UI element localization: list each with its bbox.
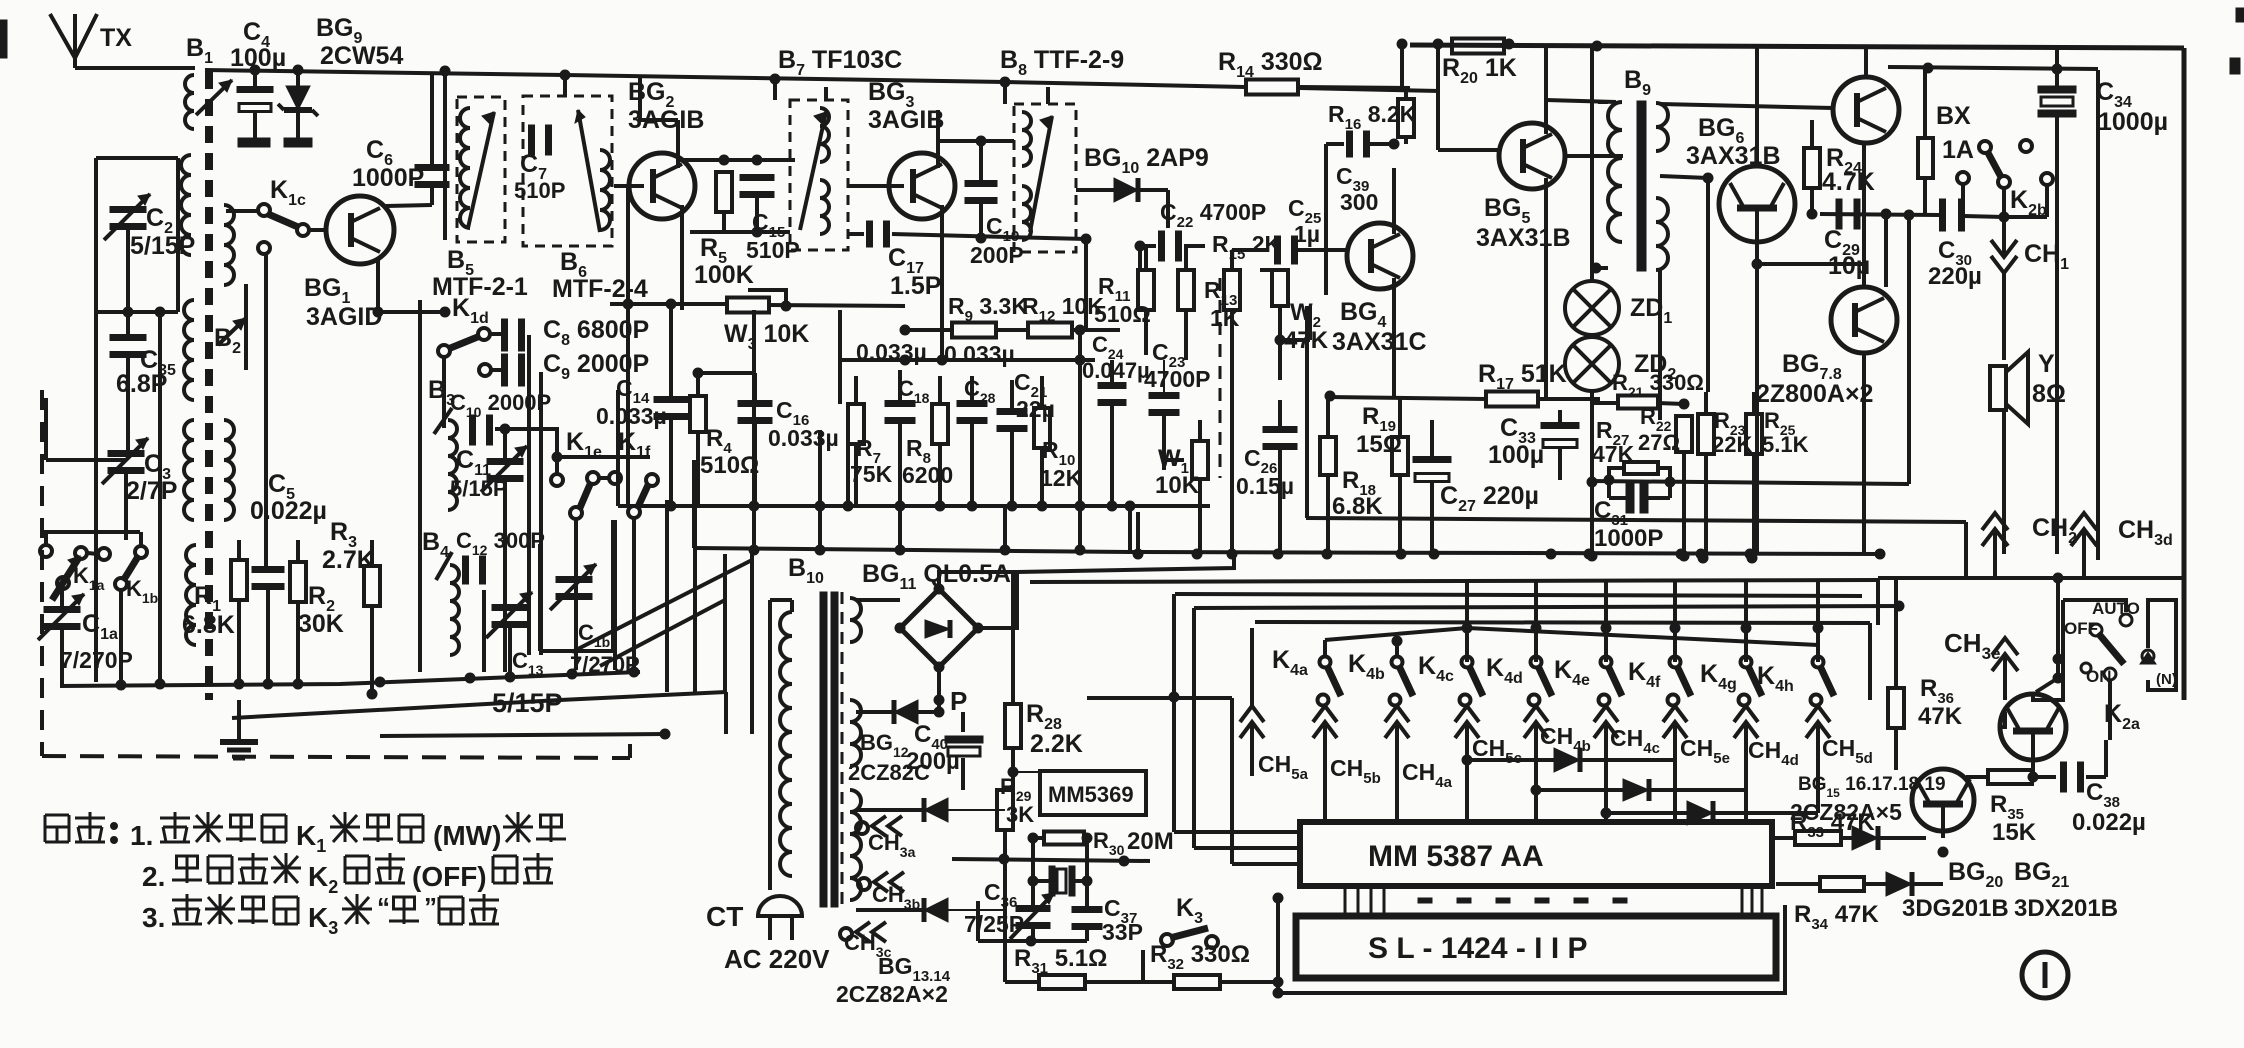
svg-text:510Ω: 510Ω <box>700 452 759 479</box>
svg-text:0.033µ: 0.033µ <box>768 425 839 451</box>
svg-text:0.022µ: 0.022µ <box>250 497 327 525</box>
svg-text:2.7K: 2.7K <box>322 546 375 574</box>
svg-text:5.1K: 5.1K <box>1762 432 1809 457</box>
svg-text:1000µ: 1000µ <box>2098 108 2168 136</box>
svg-text:3AX31B: 3AX31B <box>1476 224 1571 252</box>
svg-text:(N): (N) <box>2156 671 2177 688</box>
svg-text:2.2K: 2.2K <box>1030 730 1083 758</box>
svg-text:0.033µ: 0.033µ <box>944 341 1015 367</box>
svg-text:15K: 15K <box>1992 819 2037 846</box>
svg-text:47K: 47K <box>1918 703 1963 730</box>
svg-text:“: “ <box>377 892 390 922</box>
svg-text:200P: 200P <box>970 242 1024 268</box>
svg-text:1.5P: 1.5P <box>890 272 941 300</box>
svg-text:0.033µ: 0.033µ <box>596 403 667 429</box>
svg-text:BX: BX <box>1936 102 1971 130</box>
svg-text:TX: TX <box>100 24 132 52</box>
svg-text:1µ: 1µ <box>1294 221 1320 247</box>
svg-text:30K: 30K <box>298 610 344 638</box>
svg-text:3AX31B: 3AX31B <box>1686 142 1781 170</box>
svg-text:100µ: 100µ <box>1488 441 1544 469</box>
svg-text:10µ: 10µ <box>1828 252 1870 280</box>
svg-text:7/25P: 7/25P <box>964 911 1024 937</box>
svg-text:5/15P: 5/15P <box>130 232 195 260</box>
svg-text:AC 220V: AC 220V <box>724 944 830 974</box>
svg-text:P: P <box>950 686 967 716</box>
svg-text:33P: 33P <box>1102 919 1143 945</box>
svg-text:5/15P: 5/15P <box>450 476 508 501</box>
svg-text:300: 300 <box>1340 189 1378 215</box>
svg-text:200µ: 200µ <box>906 748 960 775</box>
svg-text:”: ” <box>424 892 437 922</box>
svg-text:1000P: 1000P <box>352 164 424 192</box>
svg-text:100µ: 100µ <box>230 44 286 72</box>
svg-text:2CW54: 2CW54 <box>320 42 403 70</box>
svg-text:15Ω: 15Ω <box>1356 431 1402 458</box>
svg-text:3AGID: 3AGID <box>306 303 382 331</box>
svg-text:0.15µ: 0.15µ <box>1236 473 1294 499</box>
svg-text:2Z800A×2: 2Z800A×2 <box>1756 380 1873 408</box>
svg-text:220µ: 220µ <box>1928 263 1982 290</box>
svg-text:27Ω: 27Ω <box>1638 430 1680 455</box>
svg-text:510P: 510P <box>514 178 565 203</box>
svg-text:10K: 10K <box>1155 472 1200 499</box>
svg-text:0.047µ: 0.047µ <box>1082 358 1150 383</box>
svg-text:510Ω: 510Ω <box>1094 301 1151 327</box>
svg-text:20M: 20M <box>1127 828 1174 855</box>
svg-text:12K: 12K <box>1040 465 1083 491</box>
svg-text:8Ω: 8Ω <box>2032 380 2066 408</box>
svg-text:3K: 3K <box>1006 802 1034 827</box>
svg-text:3AGIB: 3AGIB <box>868 106 944 134</box>
svg-text:100K: 100K <box>694 261 754 289</box>
svg-text:MM5369: MM5369 <box>1048 782 1134 807</box>
svg-text:6.8K: 6.8K <box>1332 493 1383 520</box>
svg-text:Y: Y <box>2038 350 2055 378</box>
svg-text:0.022µ: 0.022µ <box>2072 809 2146 836</box>
svg-text:CT: CT <box>706 901 743 932</box>
svg-text:6200: 6200 <box>902 462 953 488</box>
svg-text:2.: 2. <box>142 861 165 892</box>
svg-text:MTF-2-4: MTF-2-4 <box>552 275 648 303</box>
svg-text:3.: 3. <box>142 902 165 933</box>
svg-text:1000P: 1000P <box>1594 525 1663 552</box>
svg-text:S L - 1424 - I I P: S L - 1424 - I I P <box>1368 932 1588 965</box>
svg-text:4.7K: 4.7K <box>1822 168 1875 196</box>
svg-text:4700P: 4700P <box>1144 366 1211 392</box>
svg-text:3DX201B: 3DX201B <box>2014 895 2118 922</box>
svg-text:6.8K: 6.8K <box>182 611 235 639</box>
svg-text:MTF-2-1: MTF-2-1 <box>432 273 528 301</box>
svg-text:(OFF): (OFF) <box>412 861 487 892</box>
svg-text:3AX31C: 3AX31C <box>1332 328 1427 356</box>
svg-text:1A: 1A <box>1942 136 1974 164</box>
svg-text:(MW): (MW) <box>433 820 501 851</box>
svg-text:5/15P: 5/15P <box>492 688 563 718</box>
svg-text:2/7P: 2/7P <box>126 477 177 505</box>
svg-text:2CZ82A×2: 2CZ82A×2 <box>836 981 948 1007</box>
svg-text:2CZ82A×5: 2CZ82A×5 <box>1790 799 1902 825</box>
svg-text:1.: 1. <box>130 820 153 851</box>
svg-text:3DG201B: 3DG201B <box>1902 895 2009 922</box>
svg-text:MM 5387 AA: MM 5387 AA <box>1368 840 1544 873</box>
